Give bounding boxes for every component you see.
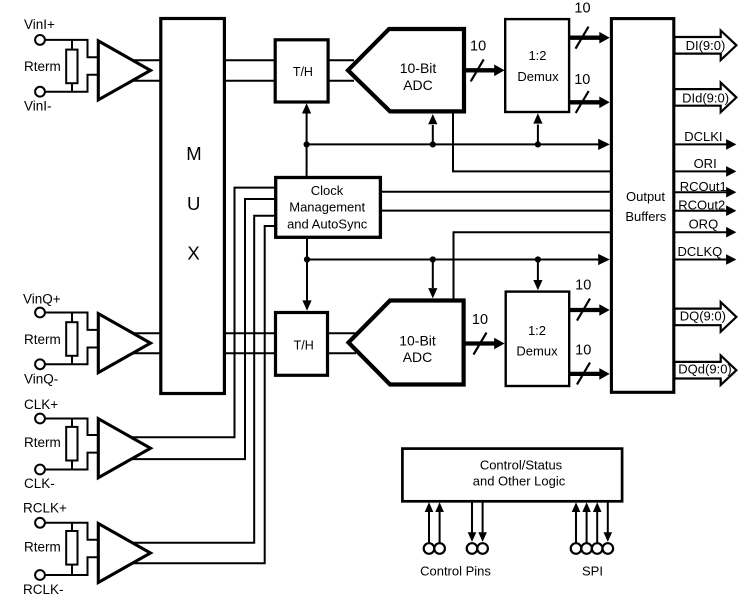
svg-text:T/H: T/H [293, 65, 313, 79]
svg-text:CLK-: CLK- [24, 476, 55, 491]
svg-text:VinI-: VinI- [24, 99, 52, 114]
svg-text:DCLKQ: DCLKQ [678, 244, 723, 259]
svg-text:RCOut2: RCOut2 [678, 197, 725, 212]
svg-text:ORQ: ORQ [689, 217, 719, 232]
svg-text:T/H: T/H [294, 339, 314, 353]
svg-text:Buffers: Buffers [625, 209, 666, 224]
svg-text:DQ(9:0): DQ(9:0) [680, 308, 726, 323]
svg-text:1:2: 1:2 [528, 323, 546, 338]
svg-text:X: X [187, 242, 199, 263]
svg-text:10-Bit: 10-Bit [399, 332, 436, 348]
svg-text:U: U [187, 193, 200, 214]
svg-text:Output: Output [626, 189, 665, 204]
svg-text:ADC: ADC [403, 77, 433, 93]
svg-text:10: 10 [472, 312, 488, 328]
svg-text:ADC: ADC [403, 349, 433, 365]
svg-text:CLK+: CLK+ [24, 397, 58, 412]
svg-text:RCLK+: RCLK+ [23, 500, 67, 515]
svg-text:Control/Status: Control/Status [480, 457, 563, 472]
svg-text:DCLKI: DCLKI [684, 129, 722, 144]
svg-text:Rterm: Rterm [24, 435, 61, 450]
svg-text:and AutoSync: and AutoSync [287, 217, 368, 232]
svg-text:10: 10 [575, 277, 591, 293]
svg-text:Rterm: Rterm [24, 59, 61, 74]
svg-text:VinI+: VinI+ [24, 17, 55, 32]
svg-text:and Other Logic: and Other Logic [473, 473, 566, 488]
svg-text:DQd(9:0): DQd(9:0) [678, 362, 731, 377]
svg-text:ORI: ORI [694, 156, 717, 171]
svg-text:RCOut1: RCOut1 [680, 179, 727, 194]
svg-text:1:2: 1:2 [528, 48, 546, 63]
svg-text:DI(9:0): DI(9:0) [686, 38, 726, 53]
svg-text:M: M [186, 143, 201, 164]
svg-text:Demux: Demux [516, 344, 558, 359]
svg-text:10: 10 [470, 38, 486, 54]
svg-text:Management: Management [289, 200, 365, 215]
svg-text:RCLK-: RCLK- [23, 582, 64, 597]
svg-text:VinQ-: VinQ- [24, 371, 58, 386]
svg-text:Rterm: Rterm [24, 332, 61, 347]
svg-text:Clock: Clock [311, 183, 344, 198]
svg-text:10: 10 [574, 1, 590, 17]
svg-text:Control Pins: Control Pins [420, 564, 491, 579]
svg-text:SPI: SPI [582, 564, 603, 579]
svg-text:Rterm: Rterm [24, 539, 61, 554]
svg-text:10-Bit: 10-Bit [400, 60, 437, 76]
svg-text:10: 10 [575, 342, 591, 358]
svg-text:Demux: Demux [517, 69, 559, 84]
svg-text:VinQ+: VinQ+ [23, 291, 61, 306]
svg-text:10: 10 [574, 72, 590, 88]
svg-text:DId(9:0): DId(9:0) [682, 91, 729, 106]
